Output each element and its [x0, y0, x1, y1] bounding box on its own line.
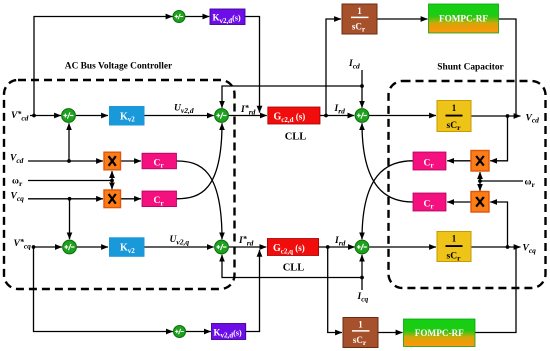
- wire: bottom sum to Kv2d(s): [186, 331, 211, 333]
- svg-text:Cr: Cr: [424, 199, 435, 210]
- wire: Cru cross-coupling curve into shunt sum q from top: [362, 161, 413, 239]
- dashed box: Shunt Capacitor: [389, 81, 546, 288]
- block 1/sCr yellow d: [437, 101, 471, 133]
- wire: wr right down into Xl: [479, 181, 481, 191]
- svg-text:Cr: Cr: [424, 158, 435, 169]
- svg-text:CLL: CLL: [283, 262, 305, 273]
- summing junction J4 +/-: [215, 240, 229, 254]
- block FOMPC-RF bottom (gradient): [404, 319, 476, 347]
- svg-text:FOMPC-RF: FOMPC-RF: [439, 14, 488, 24]
- wire: Kv2 q output Uv2q to J4: [145, 246, 214, 248]
- wire: Vcq input to multiplier X2: [28, 198, 103, 200]
- WIRES-MID: [28, 123, 222, 239]
- node dot wr right branch: [478, 179, 482, 183]
- node dot on V*cq wire: [32, 245, 36, 249]
- block Kv2d(s) bottom (purple): [212, 324, 246, 340]
- wire: Vcq feedback down into J3: [69, 199, 71, 239]
- dashed box: AC Bus Voltage Controller: [4, 80, 235, 289]
- wire: wr right input: [480, 180, 523, 182]
- block FOMPC-RF top (gradient): [429, 4, 499, 33]
- svg-text:1: 1: [452, 103, 457, 113]
- BOXES: [62, 4, 499, 348]
- wire: top sum to Kv2d(s): [185, 16, 209, 18]
- wire: Ird tap up to 1/sCr: [326, 19, 341, 116]
- svg-text:Ird: Ird: [334, 236, 346, 247]
- node dot Vcd: [506, 114, 510, 118]
- summing junction shunt q +/-: [355, 240, 369, 254]
- svg-text:sCr: sCr: [447, 251, 462, 262]
- svg-text:Uv2,q: Uv2,q: [170, 235, 190, 246]
- WIRES-SHUNT: [362, 116, 523, 247]
- wire: FOMPC-RF output down to Vcd node: [499, 19, 517, 116]
- wire: V*cq tap down and across to bottom summing node: [34, 247, 173, 332]
- wire: Gc2q output Ird to shunt sum q: [319, 246, 355, 248]
- svg-text:CLL: CLL: [285, 131, 307, 142]
- WIRES-TOPLOOP: [32, 17, 259, 118]
- summing junction J2 +/-: [215, 109, 229, 123]
- block multiplier X2 (orange): [104, 190, 121, 208]
- node dot Vcq: [506, 245, 510, 249]
- svg-text:1: 1: [358, 320, 363, 330]
- summing junction top +/-: [173, 11, 185, 23]
- block Cr lower shunt (pink): [413, 193, 446, 211]
- wire: Cr2 cross-coupling curve into J2 from bottom: [177, 123, 223, 199]
- block Gc2q(s) (red): [267, 239, 318, 256]
- svg-text:FOMPC-RF: FOMPC-RF: [415, 328, 464, 338]
- wire: bottom Kv2d(s) output up onto q I*rd wire: [246, 250, 260, 332]
- wire: Kv2 output Uv2d to J2: [145, 115, 214, 117]
- wire: Crl cross-coupling curve into shunt sum d from bottom: [362, 123, 413, 202]
- wire: Cr1 cross-coupling curve into J4 from top: [177, 161, 223, 239]
- node dot Irq tap: [326, 245, 330, 249]
- wire: Vcd feedback up into J1: [68, 123, 70, 161]
- wire: Icd input down into shunt sum: [361, 70, 363, 108]
- svg-text:AC Bus Voltage Controller: AC Bus Voltage Controller: [65, 62, 172, 72]
- node dot wr branch: [110, 179, 114, 183]
- wire: 1/sCr bottom to FOMPC-RF bottom: [378, 332, 403, 334]
- svg-text:ωr: ωr: [525, 178, 536, 189]
- wire: J4 output I*rd to Gc2q: [228, 246, 266, 248]
- wire: Irq tap down to 1/sCr bottom: [328, 247, 342, 333]
- wire: X1 to Cr1: [121, 160, 142, 162]
- node dot Icd branch: [360, 84, 364, 88]
- wire: Vcd node feedback down into Xu from right: [490, 116, 507, 161]
- wire: FOMPC-RF bottom output up to Vcq node: [475, 248, 516, 333]
- svg-text:Vcq: Vcq: [523, 244, 537, 255]
- svg-text:Vcq: Vcq: [11, 192, 25, 203]
- wire: wr input to multipliers: [28, 180, 112, 182]
- svg-text:Icq: Icq: [357, 292, 369, 303]
- WIRES-BOTLOOP: [32, 245, 260, 331]
- svg-text:Cr: Cr: [154, 158, 165, 169]
- wire: Icq input up into shunt sum q: [361, 255, 363, 290]
- wire: Vcq output: [471, 246, 521, 248]
- wire: J3 to Kv2 q: [76, 246, 108, 248]
- wire: Xu to Cru: [447, 160, 471, 162]
- wire: J1 to Kv2: [76, 115, 108, 117]
- wire: shunt sum q to 1/sCr yellow q: [370, 246, 437, 248]
- block multiplier X1 (orange): [104, 152, 121, 170]
- block Kv2 d (blue): [109, 106, 145, 126]
- wire: Xl to Crl: [447, 201, 471, 203]
- svg-text:Cr: Cr: [154, 196, 165, 207]
- wire: J2 output I*rd to Gc2d: [228, 115, 266, 117]
- block Kv2 q (blue): [109, 237, 145, 256]
- block multiplier Xu shunt (orange): [471, 151, 489, 172]
- wire: Vcd input to multiplier X1: [28, 160, 103, 162]
- wire: X2 to Cr2: [121, 198, 142, 200]
- wire: Gc2d output Ird to shunt sum: [320, 115, 354, 117]
- svg-text:Shunt Capacitor: Shunt Capacitor: [437, 63, 503, 73]
- block Cr1 (pink): [142, 153, 177, 170]
- wire: wr right up into Xu: [479, 172, 481, 181]
- wire: Kv2d(s) output down onto I*rd wire: [245, 17, 260, 113]
- svg-text:sCr: sCr: [447, 121, 462, 132]
- node dot Vcd feedback branch: [67, 159, 71, 163]
- wire: 1/sCr to FOMPC-RF: [377, 18, 428, 20]
- svg-text:1: 1: [452, 234, 457, 244]
- WIRES-DROW: [30, 19, 521, 118]
- svg-text:Vcd: Vcd: [10, 154, 24, 165]
- wire: Icq feedforward into J4 from bottom: [222, 255, 362, 278]
- svg-text:Vcd: Vcd: [526, 113, 540, 124]
- block multiplier Xl shunt (orange): [471, 192, 489, 213]
- summing junction shunt d +/-: [355, 109, 369, 123]
- block Gc2d(s) (red): [268, 107, 320, 124]
- svg-text:1: 1: [357, 6, 362, 16]
- wire: Icd feedforward into J2 from top: [222, 86, 362, 108]
- block 1/sCr bottom (brown): [343, 318, 378, 348]
- wire: wr down into X2: [111, 181, 113, 190]
- block 1/sCr yellow q: [437, 232, 471, 263]
- wire: shunt sum to 1/sCr yellow: [369, 115, 436, 117]
- summing junction bottom +/-: [174, 326, 186, 338]
- svg-text:Icd: Icd: [348, 59, 360, 70]
- node dot Ird tap: [324, 114, 328, 118]
- node dot Icq branch: [360, 276, 364, 280]
- block Cr2 (pink): [142, 191, 177, 208]
- wire: Vcd output: [471, 115, 521, 117]
- wire: Vcq node feedback up into Xl from right: [490, 202, 507, 247]
- wire: V*cd input to J1: [30, 115, 61, 117]
- block Cr upper shunt (pink): [413, 152, 446, 170]
- node dot Vcq feedback branch: [68, 197, 72, 201]
- WIRES-QROW: [32, 245, 521, 332]
- svg-text:Ird: Ird: [334, 104, 346, 115]
- wire: V*cq input to J3: [32, 246, 62, 248]
- summing junction J3 +/-: [63, 240, 77, 254]
- summing junction J1 +/-: [62, 109, 76, 123]
- wire: wr up into X1: [111, 171, 113, 180]
- node dot on V*cd wire: [32, 114, 36, 118]
- svg-text:Uv2,d: Uv2,d: [174, 104, 194, 115]
- block 1/sCr top (brown): [342, 4, 377, 34]
- block Kv2d(s) top (purple): [210, 9, 245, 25]
- svg-text:ωr: ωr: [12, 177, 23, 188]
- wire: V*cd tap up and across to top summing node: [34, 17, 173, 116]
